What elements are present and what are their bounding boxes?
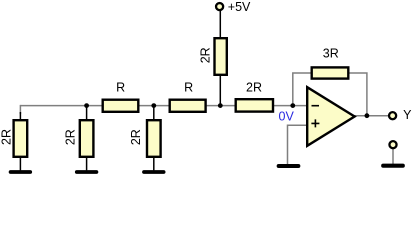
svg-text:2R: 2R bbox=[246, 81, 262, 95]
lead node to R2 2R body bbox=[86, 106, 88, 120]
svg-text:Y: Y bbox=[403, 108, 412, 122]
svg-text:2R: 2R bbox=[198, 47, 212, 63]
node junction 2 bbox=[151, 103, 156, 108]
wire left drop to R1 (2R) bbox=[19, 105, 21, 114]
svg-text:+5V: +5V bbox=[228, 0, 251, 14]
lead +5V terminal to 2R top bbox=[219, 11, 221, 39]
ground op-amp + input bbox=[279, 164, 299, 168]
wire feedback right (3R to output) bbox=[349, 73, 367, 116]
node output bbox=[365, 113, 370, 118]
lead R1 2R body to ground bbox=[19, 157, 21, 170]
svg-text:2R: 2R bbox=[0, 129, 13, 145]
wire feedback left (node to 3R) bbox=[293, 73, 311, 106]
svg-text:3R: 3R bbox=[323, 46, 339, 60]
resistor R second horizontal bbox=[170, 100, 206, 112]
svg-text:R: R bbox=[116, 81, 125, 95]
lead 2R top resistor to rail node bbox=[219, 75, 221, 106]
wire main rail bbox=[20, 105, 307, 107]
lead R3 2R body to ground bbox=[153, 157, 155, 170]
resistor 2R vertical top (from +5V) bbox=[215, 38, 227, 75]
terminal +5V bbox=[216, 3, 223, 10]
ground under second 2R bbox=[77, 170, 97, 174]
resistor 3R feedback bbox=[312, 67, 349, 78]
terminal Y bbox=[389, 112, 396, 119]
lead R1 2R to body bbox=[19, 112, 21, 120]
op-amp U1 bbox=[307, 87, 354, 146]
op-amp plus pin mark bbox=[311, 119, 319, 127]
resistor 2R vertical leftmost bbox=[14, 120, 28, 157]
wire op-amp + input to ground bbox=[288, 125, 308, 164]
resistor 2R horizontal (to op-amp) bbox=[236, 99, 273, 111]
lead R2 2R body to ground bbox=[86, 157, 88, 170]
resistor 2R vertical third bbox=[147, 120, 161, 157]
wire ground terminal stem bbox=[392, 148, 394, 164]
wire op-amp output to terminal Y bbox=[354, 115, 389, 117]
node junction 3 bbox=[218, 103, 223, 108]
svg-text:0V: 0V bbox=[279, 109, 295, 123]
resistor 2R vertical second bbox=[80, 120, 94, 157]
node junction 1 bbox=[84, 103, 89, 108]
svg-text:R: R bbox=[184, 81, 193, 95]
svg-text:2R: 2R bbox=[129, 129, 143, 145]
svg-text:2R: 2R bbox=[64, 129, 78, 145]
ground under leftmost 2R bbox=[11, 170, 31, 174]
resistor R first horizontal bbox=[103, 100, 139, 112]
lead node to R3 2R body bbox=[153, 106, 155, 120]
ground under third 2R bbox=[144, 170, 164, 174]
op-amp minus pin mark bbox=[312, 105, 320, 107]
terminal ground reference bbox=[389, 141, 396, 148]
node inverting input bbox=[290, 103, 295, 108]
ground right reference terminal bbox=[383, 164, 403, 168]
